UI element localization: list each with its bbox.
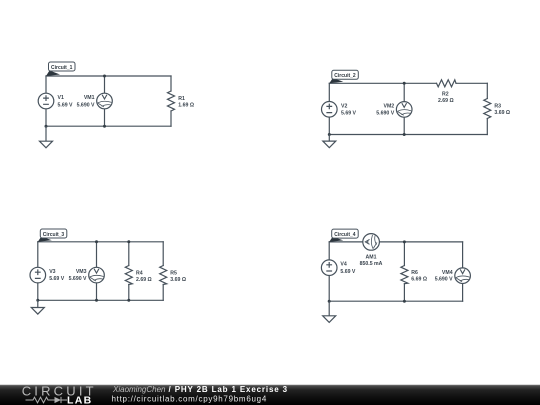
wire C1 VM1 branch lower — [104, 109, 106, 126]
wire C2 VM2 branch lower — [403, 117, 405, 134]
wire C4 right upper (VM4 top lead) — [462, 242, 464, 268]
wire C4 left lower (V4 bottom lead) — [328, 276, 330, 302]
label VM4 value — [435, 270, 453, 283]
junction C4 top R6 — [403, 240, 406, 243]
junction C3 bottom VM3 — [95, 299, 98, 302]
voltmeter VM2 — [396, 102, 412, 118]
svg-text:VM3: VM3 — [76, 269, 87, 275]
label V3 value — [49, 269, 65, 282]
label R6 value — [411, 270, 427, 283]
wire C2 VM2 branch upper — [403, 83, 405, 101]
voltmeter VM1 — [97, 93, 113, 109]
label VM2 value — [376, 104, 394, 117]
wire C2 top left segment — [329, 82, 436, 84]
svg-text:5.69 V: 5.69 V — [49, 276, 65, 282]
svg-text:http://circuitlab.com/cpy9h79b: http://circuitlab.com/cpy9h79bm6ug4 — [112, 395, 268, 404]
voltage source V3 — [30, 267, 46, 283]
wire C4 left upper (V4 top lead) — [328, 242, 330, 260]
label R3 value — [494, 103, 510, 115]
wire C1 left upper (V1 top lead) — [45, 76, 47, 93]
wire C3 VM3 branch lower — [96, 283, 98, 300]
wire C3 bottom — [38, 299, 163, 301]
wire C4 right lower (VM4 bottom lead) — [462, 284, 464, 302]
wire C4 top right segment (AM1 to corner) — [379, 241, 462, 243]
voltage source V1 — [38, 93, 54, 109]
voltage source V2 — [322, 102, 338, 118]
resistor R1 — [168, 91, 175, 111]
wire C1 bottom — [46, 125, 171, 127]
svg-text:850.5 mA: 850.5 mA — [360, 261, 383, 267]
svg-text:5.69 V: 5.69 V — [340, 269, 356, 275]
svg-text:VM2: VM2 — [384, 104, 395, 110]
label V2 value — [341, 104, 357, 117]
resistor R4 — [125, 266, 132, 285]
resistor R5 — [160, 266, 167, 285]
svg-text:Circuit_3: Circuit_3 — [43, 232, 65, 238]
resistor R2 — [437, 80, 457, 87]
junction C1 top VM1 — [103, 75, 106, 78]
label AM1 value — [360, 254, 383, 266]
junction C3 bottom-left (ground node) — [36, 299, 39, 302]
resistor R6 — [401, 266, 408, 284]
label VM1 value — [77, 95, 95, 108]
svg-text:2.69 Ω: 2.69 Ω — [438, 98, 454, 104]
wire C4 top left segment (to AM1) — [329, 241, 363, 243]
ground C3 — [31, 300, 44, 314]
svg-text:5.690 V: 5.690 V — [69, 276, 87, 282]
svg-text:LAB: LAB — [67, 394, 92, 405]
ground C2 — [323, 135, 336, 148]
svg-text:XiaomingChen / PHY 2B Lab 1 Ex: XiaomingChen / PHY 2B Lab 1 Execrise 3 — [112, 385, 288, 394]
svg-text:V2: V2 — [341, 104, 347, 110]
svg-text:5.69 V: 5.69 V — [341, 111, 357, 117]
svg-text:2.69 Ω: 2.69 Ω — [136, 277, 152, 283]
flag Circuit_1 — [46, 62, 75, 76]
svg-text:AM1: AM1 — [366, 254, 377, 260]
wire C2 left upper (V2 top lead) — [328, 83, 330, 101]
wire C3 left lower (V3 bottom lead) — [37, 283, 39, 300]
wire C2 right upper (R3 top lead) — [486, 83, 488, 98]
wire C4 R6 branch lower — [403, 284, 405, 302]
svg-text:R5: R5 — [170, 270, 177, 276]
svg-text:R3: R3 — [494, 103, 501, 109]
junction C1 bottom-left (ground node) — [45, 125, 48, 128]
label R2 value — [438, 92, 454, 104]
wire C3 R4 branch upper — [128, 242, 130, 266]
voltmeter VM4 — [455, 268, 471, 284]
svg-text:Circuit_4: Circuit_4 — [334, 232, 356, 238]
wire C1 top — [46, 75, 171, 77]
wire C2 right lower (R3 bottom lead) — [486, 119, 488, 135]
svg-text:3.69 Ω: 3.69 Ω — [494, 110, 510, 116]
svg-text:5.690 V: 5.690 V — [435, 277, 453, 283]
junction C2 bottom-left (ground node) — [328, 133, 331, 136]
svg-text:R1: R1 — [178, 96, 185, 102]
junction C3 top R4 — [127, 240, 130, 243]
svg-text:R6: R6 — [411, 270, 418, 276]
svg-text:R2: R2 — [442, 92, 449, 98]
junction C2 bottom VM2 — [403, 133, 406, 136]
ground C1 — [40, 126, 53, 148]
svg-text:1.69 Ω: 1.69 Ω — [178, 102, 194, 108]
wire C3 left upper (V3 top lead) — [37, 242, 39, 267]
svg-text:3.69 Ω: 3.69 Ω — [170, 277, 186, 283]
label R1 value — [178, 96, 194, 108]
wire C3 R4 branch lower — [128, 285, 130, 301]
svg-text:V3: V3 — [49, 269, 55, 275]
junction C4 bottom-left (ground node) — [328, 300, 331, 303]
svg-text:Circuit_2: Circuit_2 — [334, 73, 356, 79]
wire C3 VM3 branch upper — [96, 242, 98, 267]
voltage source V4 — [321, 260, 337, 276]
svg-text:Circuit_1: Circuit_1 — [51, 65, 73, 71]
flag Circuit_2 — [329, 70, 358, 83]
junction C2 top VM2 — [403, 82, 406, 85]
junction C1 bottom VM1 — [103, 125, 106, 128]
wire C4 bottom — [329, 300, 462, 302]
wire C3 R5 branch lower — [162, 285, 164, 301]
wire C1 left lower (V1 bottom lead) — [45, 109, 47, 126]
wire C1 VM1 branch upper — [104, 76, 106, 93]
voltmeter VM3 — [89, 267, 105, 283]
ground C4 — [323, 301, 336, 322]
label R4 value — [136, 270, 152, 283]
label VM3 value — [69, 269, 87, 282]
flag Circuit_4 — [329, 229, 358, 242]
label R5 value — [170, 270, 186, 283]
svg-text:R4: R4 — [136, 270, 143, 276]
svg-text:VM1: VM1 — [84, 95, 95, 101]
svg-text:6.69 Ω: 6.69 Ω — [411, 277, 427, 283]
svg-text:VM4: VM4 — [442, 270, 453, 276]
flag Circuit_3 — [38, 229, 67, 242]
wire C4 R6 branch upper — [403, 242, 405, 266]
svg-text:5.690 V: 5.690 V — [376, 111, 394, 117]
resistor R3 — [484, 99, 491, 119]
label V1 value — [58, 95, 74, 108]
junction C3 top VM3 — [95, 240, 98, 243]
label V4 value — [340, 262, 356, 275]
wire C2 top right segment — [456, 82, 487, 84]
junction C3 bottom R4 — [127, 299, 130, 302]
svg-text:5.690 V: 5.690 V — [77, 102, 95, 108]
wire C3 top — [38, 241, 163, 243]
wire C2 left lower (V2 bottom lead) — [328, 117, 330, 134]
wire C3 R5 branch upper — [162, 242, 164, 266]
ammeter AM1 — [363, 234, 380, 251]
junction C4 bottom R6 — [403, 300, 406, 303]
logo resistor-diode symbol — [26, 397, 68, 403]
svg-text:5.69 V: 5.69 V — [58, 102, 74, 108]
wire C2 bottom — [329, 134, 487, 136]
svg-text:V1: V1 — [58, 95, 64, 101]
svg-text:V4: V4 — [340, 262, 346, 268]
wire C1 right upper (R1 top lead) — [170, 76, 172, 91]
wire C1 right lower (R1 bottom lead) — [170, 111, 172, 126]
